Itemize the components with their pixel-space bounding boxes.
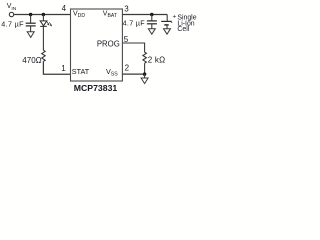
svg-text:-: -: [171, 19, 173, 26]
LED light arrows: [47, 21, 52, 25]
node VIN terminal: [9, 12, 13, 16]
svg-text:2 kΩ: 2 kΩ: [148, 55, 165, 64]
svg-text:MCP73831: MCP73831: [74, 83, 118, 93]
ground under C1: [27, 32, 34, 38]
svg-text:VIN: VIN: [7, 3, 17, 12]
svg-text:4.7 µF: 4.7 µF: [1, 20, 24, 29]
wire R1 to STAT pin: [43, 61, 70, 74]
ground under battery: [164, 29, 171, 35]
LED D1: [40, 21, 47, 27]
wire VSS pin: [122, 73, 144, 75]
wire battery drop: [166, 15, 168, 22]
wire VBAT rail: [122, 14, 167, 16]
wire cap C2 lead: [151, 15, 153, 21]
wire PROG pin: [122, 43, 144, 52]
wire cap C1 lead: [30, 15, 32, 24]
op-amp U1 MCP73831 box: [71, 9, 123, 81]
ground under R2: [141, 78, 148, 84]
capacitor C1 4.7uF: [26, 23, 36, 26]
svg-text:4: 4: [62, 4, 67, 13]
svg-text:3: 3: [124, 5, 129, 14]
wire R2 to node: [144, 63, 146, 74]
ground under C2: [148, 29, 155, 35]
node junction D: [143, 72, 147, 76]
wire C1 to ground: [30, 26, 32, 32]
svg-text:Cell: Cell: [177, 26, 189, 33]
svg-text:STAT: STAT: [72, 67, 90, 76]
wire VIN rail: [14, 14, 71, 16]
battery BT1: [161, 21, 172, 25]
svg-text:1: 1: [61, 64, 66, 73]
node junction C: [150, 13, 154, 17]
svg-text:PROG: PROG: [97, 39, 120, 48]
capacitor C2 4.7uF: [147, 21, 157, 24]
wire LED cathode to R1: [42, 26, 44, 50]
svg-text:470Ω: 470Ω: [22, 56, 41, 65]
svg-text:4.7 µF: 4.7 µF: [123, 18, 146, 27]
resistor R1 470 ohm: [42, 50, 46, 61]
wire node to ground: [144, 74, 146, 78]
wire LED anode lead: [42, 15, 44, 21]
node junction B: [42, 13, 46, 17]
svg-text:+: +: [173, 14, 177, 21]
node junction A: [29, 13, 32, 17]
resistor R2 2k ohm: [143, 52, 147, 63]
svg-text:2: 2: [125, 64, 130, 73]
wire battery to ground: [166, 25, 168, 29]
wire C2 to ground: [151, 24, 153, 29]
